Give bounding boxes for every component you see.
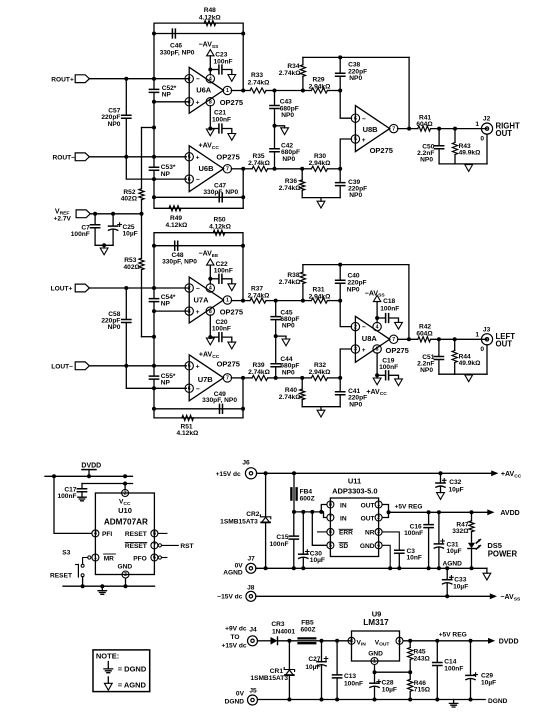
- pin 3: [351, 345, 359, 353]
- ground AGND legend symbol: [107, 677, 109, 683]
- feedback loop U6B: wire: [153, 179, 155, 197]
- svg-text:10µF: 10µF: [382, 687, 397, 694]
- svg-text:7: 7: [329, 515, 332, 521]
- svg-text:3: 3: [124, 572, 127, 578]
- wire switch to ground rail: [82, 577, 84, 587]
- junction R45/R46: [408, 670, 412, 674]
- capacitor C20: [210, 336, 218, 338]
- svg-text:RST: RST: [180, 543, 193, 550]
- ground DGND: [101, 586, 103, 591]
- svg-text:6: 6: [188, 386, 191, 392]
- op-amp U6B: [189, 146, 223, 192]
- capacitor C42: [274, 126, 276, 149]
- svg-text:CR3: CR3: [271, 621, 285, 628]
- svg-text:+: +: [196, 100, 200, 107]
- junction C55 top: [152, 364, 156, 368]
- wire +9V line: [258, 640, 271, 642]
- wire C17 rail: [82, 483, 133, 485]
- ground AGND stub: [275, 126, 285, 128]
- wire switch actuator: [77, 565, 79, 578]
- svg-text:332Ω: 332Ω: [452, 528, 469, 535]
- svg-text:U10: U10: [118, 506, 132, 515]
- junction C14: [435, 639, 439, 643]
- pin 6 ERR: [327, 528, 334, 535]
- svg-text:10µF: 10µF: [481, 680, 496, 687]
- junction switch: [81, 584, 85, 588]
- junction C7: [93, 212, 97, 216]
- wire LOUT-: [89, 365, 186, 367]
- junction C21: [208, 127, 212, 131]
- svg-text:C33: C33: [454, 577, 466, 584]
- svg-text:6: 6: [354, 116, 357, 122]
- wire to R52: [142, 127, 155, 129]
- junction C46 right: [241, 32, 245, 36]
- junction feedback: [407, 337, 411, 341]
- svg-text:PFO: PFO: [133, 555, 147, 562]
- ferrite bead FB5: [297, 638, 316, 643]
- wire ERR stub: [318, 531, 327, 533]
- junction GND ground: [388, 566, 392, 570]
- junction +5V: [387, 510, 391, 514]
- svg-text:8: 8: [153, 531, 156, 537]
- junction LOUT-/C58: [124, 364, 128, 368]
- svg-text:NP: NP: [161, 171, 171, 178]
- wire input rail to regulator: [294, 511, 321, 513]
- svg-text:C28: C28: [382, 680, 394, 687]
- wire pin3 to ground rail: [125, 578, 127, 586]
- junction C54/feedback: [152, 286, 156, 290]
- svg-text:2.94kΩ: 2.94kΩ: [309, 369, 332, 376]
- svg-text:100nF: 100nF: [380, 305, 399, 312]
- wire: [302, 377, 311, 379]
- wire down to ROUT- line: [153, 128, 155, 157]
- svg-text:RESET: RESET: [50, 572, 72, 579]
- capacitor C32: [440, 473, 442, 483]
- power arrow +AVCC: [206, 129, 214, 136]
- wire ROUT- to U6B pin5: [126, 156, 186, 158]
- wire MR to switch: [83, 558, 88, 565]
- junction ground bar: [102, 243, 106, 247]
- pin 2: [351, 322, 359, 330]
- svg-text:100nF: 100nF: [444, 665, 463, 672]
- resistor R44: [454, 339, 456, 350]
- feedback loop U7B: wire: [153, 388, 155, 409]
- capacitor C52*: [153, 79, 155, 90]
- resistor R53: [141, 214, 143, 258]
- junction R53 node: [152, 335, 156, 339]
- svg-text:8: 8: [209, 309, 212, 315]
- svg-text:−: −: [362, 116, 366, 123]
- svg-text:J6: J6: [242, 459, 250, 466]
- svg-text:243Ω: 243Ω: [414, 655, 431, 662]
- junction C48 left: [152, 244, 156, 248]
- junction C42/C43 mid: [273, 124, 277, 128]
- ground AGND at C20: [228, 342, 236, 349]
- resistor R31: [311, 298, 327, 303]
- junction IN: [319, 510, 323, 514]
- capacitor C30: [302, 512, 304, 554]
- wire U6A output: [231, 90, 243, 92]
- svg-text:4: 4: [209, 76, 212, 82]
- junction C41 top: [338, 376, 342, 380]
- svg-text:1: 1: [377, 502, 380, 508]
- wire: [302, 168, 311, 170]
- wire U7B out to R39: [243, 377, 252, 379]
- junction summing node: [338, 299, 342, 303]
- net -AVEE at U7A pin4: [209, 279, 211, 284]
- wire pin6 stub: [162, 557, 167, 559]
- capacitor C45: [275, 301, 277, 317]
- wire U7A output: [231, 300, 243, 302]
- svg-text:LOUT+: LOUT+: [51, 286, 73, 293]
- svg-text:1: 1: [94, 555, 97, 561]
- svg-text:10nF: 10nF: [407, 555, 422, 562]
- svg-text:+9V dc: +9V dc: [225, 626, 247, 633]
- svg-text:+15V dc: +15V dc: [221, 643, 246, 650]
- svg-text:GND: GND: [368, 650, 383, 657]
- wire to pin2: [154, 78, 189, 80]
- pin 4: [206, 284, 214, 292]
- svg-text:8: 8: [376, 347, 379, 353]
- junction C49 left: [152, 407, 156, 411]
- wire LOUT+ to U7A pin2: [89, 287, 189, 289]
- wire +15V line: [257, 472, 492, 474]
- svg-text:5: 5: [329, 543, 332, 549]
- svg-text:R37: R37: [251, 285, 263, 292]
- svg-text:1: 1: [226, 88, 229, 94]
- junction C18: [375, 316, 379, 320]
- ground AGND stub: [276, 336, 286, 339]
- net -AVSS output: [490, 593, 497, 599]
- wire VREF rail: [90, 213, 141, 215]
- pin 4 VOUT: [396, 637, 403, 644]
- svg-text:100nF: 100nF: [212, 326, 231, 333]
- capacitor C39: [339, 169, 341, 183]
- svg-text:−: −: [196, 386, 200, 393]
- svg-text:NP0: NP0: [282, 156, 295, 163]
- wire: [328, 168, 341, 170]
- ground AGND: [465, 375, 473, 382]
- svg-text:+: +: [362, 347, 366, 354]
- wire +5V REG rail: [389, 511, 488, 513]
- svg-text:5: 5: [188, 364, 191, 370]
- junction C39 top: [338, 167, 342, 171]
- wire DVDD rail: [45, 475, 133, 477]
- svg-text:NR: NR: [365, 530, 375, 537]
- svg-text:100nF: 100nF: [214, 59, 233, 66]
- junction R34 bottom: [301, 89, 305, 93]
- svg-text:600Z: 600Z: [300, 495, 315, 502]
- svg-text:ROUT−: ROUT−: [52, 154, 75, 161]
- svg-text:J8: J8: [247, 584, 255, 591]
- resistor R48: [204, 21, 216, 26]
- net +AVCC at U8A pin8: [376, 353, 378, 375]
- svg-text:AGND: AGND: [223, 569, 243, 576]
- wire OUT pins join: [383, 505, 389, 518]
- pin 6: [185, 384, 193, 392]
- svg-text:0: 0: [480, 135, 484, 142]
- svg-text:OP275: OP275: [386, 346, 409, 355]
- svg-text:+: +: [196, 309, 200, 316]
- capacitor C43: [274, 91, 276, 106]
- resistor R39: [252, 375, 267, 380]
- svg-text:402Ω: 402Ω: [121, 196, 138, 203]
- svg-text:J2: J2: [483, 116, 491, 123]
- capacitor C40: [339, 265, 341, 281]
- resistor R40: [301, 378, 303, 389]
- svg-text:0V: 0V: [235, 562, 244, 569]
- resistor R51: [182, 415, 194, 420]
- junction C46 left: [152, 32, 156, 36]
- svg-text:ERR: ERR: [339, 530, 353, 537]
- svg-text:100nF: 100nF: [344, 680, 363, 687]
- wire R51 rung: [154, 409, 243, 418]
- svg-text:4.12kΩ: 4.12kΩ: [177, 430, 200, 437]
- junction R43: [453, 127, 457, 131]
- resistor R29: [311, 88, 327, 93]
- wire feedback right vertical: [408, 265, 410, 340]
- wire ROUT+ to U6A pin2: [89, 78, 154, 80]
- op-amp U8B: [355, 106, 389, 152]
- wire top feedback rung: [303, 264, 409, 266]
- pin 4: [206, 75, 214, 83]
- svg-text:4.12kΩ: 4.12kΩ: [199, 14, 222, 21]
- junction C22: [208, 277, 212, 281]
- svg-text:OP275: OP275: [220, 307, 243, 316]
- ferrite bead FB4: [293, 473, 295, 512]
- wire top feedback rung: [303, 56, 409, 58]
- pin 4: [373, 322, 381, 330]
- junction VCC branch: [123, 474, 127, 478]
- svg-text:4: 4: [398, 639, 401, 645]
- junction C55 bottom: [152, 386, 156, 390]
- wire C41 node to U8A pin3: [340, 349, 351, 378]
- resistor R38: [302, 265, 304, 272]
- pin 3 GND: [122, 571, 129, 578]
- svg-text:RESET: RESET: [125, 543, 147, 550]
- svg-text:6: 6: [188, 177, 191, 183]
- svg-text:IN: IN: [340, 502, 347, 509]
- junction C3 ground: [397, 566, 401, 570]
- svg-text:100nF: 100nF: [212, 116, 231, 123]
- svg-text:2: 2: [188, 286, 191, 292]
- junction R52/R53: [140, 212, 144, 216]
- svg-text:8: 8: [209, 100, 212, 106]
- wire feedback left vertical: [153, 246, 155, 288]
- junction CR1 ground: [287, 698, 291, 702]
- junction C15 ground: [292, 566, 296, 570]
- wire output ground rail: [439, 163, 487, 165]
- svg-text:+2.7V: +2.7V: [54, 215, 72, 222]
- wire: [276, 300, 303, 302]
- IC U11 ADP3303-5.0 body: [330, 498, 378, 557]
- svg-text:4.12kΩ: 4.12kΩ: [209, 224, 232, 231]
- pin 8 RESET: [151, 530, 158, 537]
- svg-text:OUT: OUT: [496, 129, 513, 138]
- svg-text:2.74kΩ: 2.74kΩ: [248, 292, 271, 299]
- svg-text:NP0: NP0: [349, 75, 362, 82]
- wire VOUT line: [403, 640, 488, 642]
- svg-text:1: 1: [226, 298, 229, 304]
- svg-text:7: 7: [392, 126, 395, 132]
- pin 3: [185, 307, 193, 315]
- junction C51: [437, 337, 441, 341]
- capacitor C48: [175, 241, 178, 250]
- wire to VIN: [278, 640, 352, 642]
- junction C28: [373, 670, 377, 674]
- svg-text:4: 4: [377, 543, 380, 549]
- capacitor C13: [336, 641, 338, 675]
- svg-text:6: 6: [153, 555, 156, 561]
- resistor R52: [141, 128, 143, 189]
- wire: [266, 300, 276, 302]
- svg-text:RESET: RESET: [125, 531, 147, 538]
- svg-text:10µF: 10µF: [310, 557, 325, 564]
- svg-text:ADM707AR: ADM707AR: [104, 517, 148, 526]
- wire: [266, 90, 275, 92]
- junction C25: [111, 212, 115, 216]
- resistor R42: [418, 337, 431, 342]
- junction R44: [453, 337, 457, 341]
- junction C53 top: [152, 155, 156, 159]
- svg-text:+: +: [196, 155, 200, 162]
- junction C38 top: [338, 55, 342, 59]
- svg-text:715Ω: 715Ω: [414, 687, 431, 694]
- svg-text:2.94kΩ: 2.94kΩ: [309, 160, 332, 167]
- junction C20: [208, 335, 212, 339]
- resistor R36: [301, 169, 303, 180]
- svg-text:NP0: NP0: [282, 369, 295, 376]
- pin 6 PFO: [151, 554, 158, 561]
- svg-text:POWER: POWER: [488, 550, 518, 559]
- ground DGND: [453, 700, 455, 704]
- junction C47 right: [241, 195, 245, 199]
- resistor R32: [311, 375, 327, 380]
- svg-text:10µF: 10µF: [447, 548, 462, 555]
- pin 7 RESET-bar: [151, 542, 158, 549]
- op-amp U8A: [355, 316, 389, 362]
- net +AVCC at U6A pin8: [209, 106, 211, 129]
- junction C32: [439, 471, 443, 475]
- svg-text:100nF: 100nF: [214, 268, 233, 275]
- wire AGND rail: [256, 567, 487, 569]
- svg-text:J4: J4: [249, 627, 257, 634]
- net +AVCC output: [491, 470, 498, 476]
- wire C39 node to U8B pin5: [340, 139, 351, 169]
- svg-text:402Ω: 402Ω: [124, 264, 141, 271]
- svg-text:U8A: U8A: [362, 334, 378, 343]
- svg-text:4: 4: [376, 324, 379, 330]
- wire to J3: [431, 338, 487, 340]
- capacitor C53*: [153, 157, 155, 167]
- capacitor C44: [275, 336, 277, 363]
- capacitor C31: [438, 512, 440, 543]
- junction C19: [375, 373, 379, 377]
- svg-text:NP0: NP0: [281, 112, 294, 119]
- pin 6: [185, 175, 193, 183]
- junction C15: [292, 510, 296, 514]
- ground AGND: [320, 198, 322, 202]
- wire PFI branch: [54, 476, 92, 533]
- wire ROUT-: [89, 156, 126, 158]
- svg-text:C23: C23: [215, 51, 227, 58]
- svg-text:C32: C32: [449, 479, 461, 486]
- svg-text:OP275: OP275: [217, 360, 240, 369]
- junction FB4: [292, 471, 296, 475]
- wire J2 shell to ground: [486, 134, 488, 164]
- junction C40 top: [338, 263, 342, 267]
- svg-text:+: +: [362, 137, 366, 144]
- svg-text:J7: J7: [248, 555, 256, 562]
- svg-text:LOUT−: LOUT−: [51, 363, 73, 370]
- svg-text:7: 7: [392, 337, 395, 343]
- junction R46 ground: [408, 698, 412, 702]
- svg-text:3: 3: [188, 100, 191, 106]
- capacitor C7: [94, 214, 96, 225]
- junction CR2 ground: [264, 566, 268, 570]
- wire output ground rail: [439, 373, 487, 375]
- svg-text:3: 3: [354, 347, 357, 353]
- junction PFI branch: [52, 474, 56, 478]
- svg-text:SD: SD: [339, 543, 348, 550]
- svg-text:6: 6: [329, 530, 332, 536]
- capacitor C33: [446, 568, 448, 579]
- junction C16 ground: [427, 566, 431, 570]
- resistor R35: [252, 166, 267, 171]
- svg-text:3: 3: [377, 530, 380, 536]
- ground AGND at C23: [228, 75, 236, 82]
- svg-text:1: 1: [475, 332, 479, 339]
- junction C28 ground: [373, 698, 377, 702]
- wire U7B output: [231, 377, 243, 379]
- capacitor C57: [125, 79, 127, 115]
- wire U6B out to R35: [243, 168, 252, 170]
- junction feedback: [407, 127, 411, 131]
- junction U7B out: [241, 376, 245, 380]
- wire pin3 node down: [153, 102, 155, 128]
- svg-text:J3: J3: [483, 326, 491, 333]
- svg-text:1SMB15AT3: 1SMB15AT3: [220, 519, 258, 526]
- resistor R41: [418, 126, 431, 131]
- svg-text:7: 7: [226, 376, 229, 382]
- svg-text:C40: C40: [348, 272, 360, 279]
- junction DVDD: [87, 474, 91, 478]
- svg-text:7: 7: [226, 167, 229, 173]
- wire to J2: [431, 128, 487, 130]
- svg-text:DGND: DGND: [488, 698, 508, 705]
- wire J3 shell to ground: [486, 345, 488, 374]
- wire: [275, 168, 303, 170]
- junction C33 ground: [445, 566, 449, 570]
- junction SD: [310, 510, 314, 514]
- junction pin3 node: [152, 309, 156, 313]
- svg-text:NP: NP: [162, 91, 172, 98]
- net +AVCC at U7A pin8: [209, 315, 211, 337]
- wire GND pin to rail: [383, 545, 391, 568]
- svg-text:10µF: 10µF: [453, 584, 468, 591]
- resistor R45: [409, 641, 411, 647]
- svg-text:U8B: U8B: [363, 125, 379, 134]
- pin 6: [351, 114, 359, 122]
- junction U6B out: [241, 167, 245, 171]
- wire to U6A pin3: [154, 101, 189, 103]
- junction C33: [445, 594, 449, 598]
- wire down to LOUT- line: [153, 337, 155, 366]
- svg-text:2.74kΩ: 2.74kΩ: [248, 80, 271, 87]
- svg-text:5: 5: [188, 155, 191, 161]
- svg-text:R48: R48: [204, 7, 216, 14]
- wire summing node to U8A pin2: [340, 301, 351, 327]
